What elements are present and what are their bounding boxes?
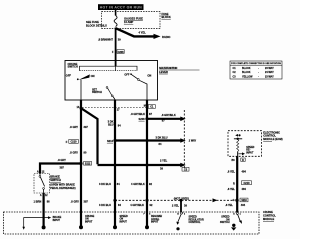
module internal arrow bbox=[22, 216, 51, 230]
svg-text:SWITCH: SWITCH bbox=[50, 178, 61, 182]
svg-text:.8 GRY: .8 GRY bbox=[58, 158, 67, 162]
wire A label at bottom bbox=[71, 200, 89, 204]
svg-text:3 DK BLU: 3 DK BLU bbox=[156, 136, 168, 140]
wire from fuse to switch box bbox=[115, 28, 117, 61]
connector pins above brake switch bbox=[37, 170, 45, 173]
ECM internal signal line bbox=[234, 134, 255, 156]
brake switch SW1 dashed box bbox=[34, 174, 50, 194]
wire D from C3 to module bbox=[180, 200, 182, 212]
label CRUISE SWITCH bbox=[68, 62, 78, 69]
dashed bus wire bbox=[115, 199, 234, 201]
wire A from switch bbox=[80, 100, 82, 212]
svg-text:B: B bbox=[177, 213, 179, 215]
fuse block label bbox=[162, 12, 171, 19]
svg-text:397: 397 bbox=[84, 200, 89, 204]
svg-text:39: 39 bbox=[118, 38, 121, 42]
cruise module label bbox=[263, 210, 276, 222]
svg-text:FOR COMPLETE CONNECTOR ID SEE: FOR COMPLETE CONNECTOR ID SEE NOTATION bbox=[231, 62, 281, 65]
wire B lower label bbox=[99, 182, 152, 186]
svg-text:OFF: OFF bbox=[124, 73, 129, 76]
header HOT IN ACCY OR RUN bbox=[98, 4, 144, 10]
svg-text:(OPEN WITH BRAKE: (OPEN WITH BRAKE bbox=[50, 184, 75, 187]
svg-text:BLACK: BLACK bbox=[242, 71, 251, 74]
svg-text:84: 84 bbox=[117, 182, 120, 186]
svg-text:87: 87 bbox=[149, 112, 152, 116]
svg-text:A: A bbox=[40, 194, 42, 197]
svg-text:SWITCH: SWITCH bbox=[68, 65, 78, 69]
svg-text:90: 90 bbox=[84, 150, 87, 154]
svg-text:3 DK BLU: 3 DK BLU bbox=[99, 203, 111, 207]
svg-text:84: 84 bbox=[118, 203, 121, 207]
svg-text:13: 13 bbox=[77, 106, 80, 109]
svg-text:INPUT: INPUT bbox=[120, 220, 128, 223]
connector pins below brake switch bbox=[40, 194, 48, 197]
wire brake branch bbox=[40, 164, 81, 174]
svg-text:MODULE: MODULE bbox=[263, 217, 275, 221]
svg-text:M: M bbox=[144, 105, 146, 108]
node on wire C bbox=[145, 199, 148, 202]
svg-text:YELLOW: YELLOW bbox=[242, 76, 253, 79]
svg-text:BRAKE: BRAKE bbox=[50, 174, 60, 178]
switch arm OFF/ON wedge bbox=[66, 73, 95, 100]
svg-text:3 DK BLU: 3 DK BLU bbox=[99, 182, 111, 186]
svg-text:S212: S212 bbox=[85, 163, 91, 165]
svg-text:484: 484 bbox=[241, 203, 246, 207]
svg-text:.8 BRN/WHT: .8 BRN/WHT bbox=[98, 38, 114, 42]
wire H1 to connector bbox=[147, 118, 181, 120]
svg-text:C208: C208 bbox=[118, 51, 125, 54]
svg-text:INPUT: INPUT bbox=[151, 221, 159, 224]
svg-text:.8 GRY: .8 GRY bbox=[71, 200, 80, 204]
svg-text:4 YEL: 4 YEL bbox=[139, 31, 147, 35]
splice S214 on wire B bbox=[107, 139, 117, 143]
svg-text:-: - bbox=[258, 71, 259, 74]
svg-text:LEVER: LEVER bbox=[159, 70, 168, 74]
connector C208 bbox=[112, 50, 124, 54]
brake branch labels bbox=[58, 158, 67, 169]
svg-text:G: G bbox=[233, 199, 235, 202]
svg-text:BLACK: BLACK bbox=[242, 67, 251, 70]
wire jog from A bbox=[81, 108, 98, 164]
connector C210 on wire A bbox=[66, 139, 79, 143]
svg-text:.8 YEL: .8 YEL bbox=[227, 187, 235, 191]
svg-text:.8 YEL: .8 YEL bbox=[225, 203, 233, 207]
wire feed into slide switch bbox=[115, 61, 117, 67]
module entry pins bbox=[143, 213, 240, 215]
svg-text:INPUT: INPUT bbox=[85, 220, 93, 223]
multi-function lever switch box U1 bbox=[65, 61, 158, 101]
note SEE FUSE BLOCK DETAILS bbox=[86, 20, 107, 28]
fuse F1 GAUGES FUSE 10 AMP bbox=[114, 16, 143, 27]
svg-text:1: 1 bbox=[240, 213, 241, 215]
svg-text:F: F bbox=[66, 140, 68, 144]
svg-text:BLOCK DETAILS: BLOCK DETAILS bbox=[86, 24, 107, 28]
wire E label 3 YEL bbox=[225, 203, 246, 207]
splice S212 bbox=[79, 162, 91, 166]
svg-text:6: 6 bbox=[149, 213, 150, 215]
wire tap to radio (diagonal + arrow) bbox=[116, 28, 171, 39]
terminal speed input bbox=[113, 212, 128, 229]
svg-text:S219: S219 bbox=[241, 200, 247, 202]
svg-text:84: 84 bbox=[118, 124, 121, 128]
svg-text:F: F bbox=[143, 213, 145, 215]
brake switch contacts bbox=[39, 174, 45, 194]
svg-text:484: 484 bbox=[242, 169, 247, 173]
svg-text:10 AMP: 10 AMP bbox=[124, 20, 134, 24]
connector C210 on wire E bbox=[233, 181, 252, 186]
connector C3 dashed boundary bbox=[183, 110, 185, 168]
svg-text:F: F bbox=[112, 50, 114, 54]
label MULTI-FUNCTION LEVER bbox=[159, 66, 199, 74]
svg-text:.8 GRY: .8 GRY bbox=[70, 125, 79, 129]
ECM dashed box bbox=[228, 131, 262, 157]
svg-text:4 GRY/BLK: 4 GRY/BLK bbox=[130, 203, 144, 207]
node on wire B bbox=[113, 199, 116, 202]
terminal resume/accel input bbox=[145, 212, 162, 229]
svg-text:R: R bbox=[233, 182, 235, 185]
wire A labels .8 GRY 397 lower bbox=[70, 150, 87, 154]
splice S208 on wire C bbox=[139, 117, 149, 121]
svg-text:E: E bbox=[233, 213, 235, 215]
svg-text:INPUT: INPUT bbox=[246, 152, 254, 155]
wire H3 from jog bbox=[98, 164, 182, 166]
wire brake to module bbox=[42, 193, 44, 212]
terminal on/off input bbox=[79, 212, 95, 229]
svg-text:HOT IN ACCY OR RUN: HOT IN ACCY OR RUN bbox=[100, 6, 143, 10]
svg-text:C210: C210 bbox=[244, 182, 251, 185]
svg-text:-: - bbox=[258, 67, 259, 70]
wire C from switch bbox=[146, 100, 148, 212]
svg-text:24 WAY: 24 WAY bbox=[265, 71, 274, 74]
svg-text:ON: ON bbox=[147, 74, 151, 78]
ECM label bbox=[263, 130, 283, 141]
label .8 BRN 86 bbox=[34, 199, 51, 203]
wire B labels 3 DK BLU 84 bbox=[108, 119, 122, 127]
svg-text:.8 GRY/BLK: .8 GRY/BLK bbox=[131, 112, 146, 116]
svg-text:CONTROL: CONTROL bbox=[189, 221, 202, 224]
svg-text:397: 397 bbox=[60, 166, 65, 170]
svg-text:C210: C210 bbox=[71, 141, 78, 144]
wire D label 2 YEL 39 bbox=[172, 203, 188, 207]
ECM connector pin bbox=[232, 158, 246, 162]
svg-text:BLU: BLU bbox=[108, 123, 113, 127]
svg-text:3: 3 bbox=[184, 213, 185, 215]
note NOT USED bbox=[174, 197, 189, 201]
svg-text:2 WAY: 2 WAY bbox=[189, 140, 197, 143]
terminal brake input bbox=[42, 212, 62, 229]
svg-text:SEE FUSE: SEE FUSE bbox=[86, 20, 99, 24]
svg-text:MULTI-FUNCTION: MULTI-FUNCTION bbox=[159, 66, 177, 70]
brake switch label bbox=[50, 174, 76, 190]
svg-text:2 YEL: 2 YEL bbox=[172, 203, 180, 207]
svg-text:FUSE: FUSE bbox=[162, 12, 169, 16]
node junction on wire A bbox=[80, 107, 83, 110]
svg-text:397: 397 bbox=[84, 125, 89, 129]
svg-text:484: 484 bbox=[242, 187, 247, 191]
set switch bbox=[92, 87, 115, 101]
cruise module dashed box bbox=[4, 212, 260, 234]
svg-text:86: 86 bbox=[47, 199, 50, 203]
wire C lower label bbox=[130, 203, 153, 207]
svg-text:92: 92 bbox=[150, 203, 153, 207]
svg-text:23 WAY: 23 WAY bbox=[265, 76, 274, 79]
slide switch body bbox=[80, 66, 138, 71]
svg-text:PEDAL DEPRESSED): PEDAL DEPRESSED) bbox=[50, 187, 76, 190]
fuse block dashed box bbox=[102, 12, 161, 29]
switch wire D input bbox=[176, 212, 204, 231]
wire E label 8 YEL 484 bbox=[227, 169, 246, 173]
svg-text:1 BRN: 1 BRN bbox=[34, 199, 42, 203]
svg-text:D: D bbox=[242, 159, 244, 162]
svg-text:C2: C2 bbox=[233, 71, 237, 74]
svg-text:2 YEL: 2 YEL bbox=[160, 159, 168, 163]
svg-text:INPUT: INPUT bbox=[53, 219, 61, 222]
svg-text:12: 12 bbox=[42, 170, 45, 173]
wire label .8 BRN/WHT 39 bbox=[98, 38, 121, 42]
svg-text:S208: S208 bbox=[139, 117, 146, 121]
svg-text:84: 84 bbox=[159, 142, 162, 146]
svg-text:GAUGES FUSE: GAUGES FUSE bbox=[124, 16, 143, 20]
svg-text:-: - bbox=[258, 76, 259, 79]
svg-text:39: 39 bbox=[184, 203, 187, 207]
wire E label 8 YEL 484 lower bbox=[227, 187, 246, 191]
wire fuse feed stub bbox=[115, 10, 117, 16]
svg-text:OFF: OFF bbox=[66, 73, 72, 77]
connector table bbox=[230, 61, 282, 79]
svg-text:B6: B6 bbox=[232, 159, 236, 162]
svg-text:MODULE (ECM): MODULE (ECM) bbox=[263, 137, 283, 141]
svg-text:17: 17 bbox=[117, 108, 120, 111]
wire H2 to connector bbox=[115, 139, 181, 141]
resume/accel switch bbox=[124, 73, 151, 100]
svg-text:SWITCH: SWITCH bbox=[220, 221, 230, 224]
svg-text:39: 39 bbox=[160, 167, 163, 171]
svg-text:92: 92 bbox=[149, 182, 152, 186]
svg-text:.8 GRY: .8 GRY bbox=[70, 150, 79, 154]
svg-text:C1: C1 bbox=[233, 67, 237, 70]
wire C labels .8 GRY/BLK 87 bbox=[131, 112, 153, 116]
svg-text:ON: ON bbox=[91, 74, 95, 78]
connector C1 row bbox=[77, 105, 156, 112]
svg-text:C3: C3 bbox=[233, 76, 237, 79]
svg-text:4 GRY/BLK: 4 GRY/BLK bbox=[131, 182, 145, 186]
splice S219 bbox=[233, 198, 248, 202]
svg-text:12: 12 bbox=[45, 195, 48, 197]
wire A labels .8 GRY 397 bbox=[70, 125, 89, 129]
switch wire E input bbox=[220, 212, 242, 230]
svg-text:S214: S214 bbox=[107, 139, 114, 143]
svg-text:SWITCH: SWITCH bbox=[92, 91, 102, 94]
svg-text:.8 YEL: .8 YEL bbox=[227, 169, 235, 173]
svg-text:23 WAY: 23 WAY bbox=[265, 67, 274, 70]
svg-text:.8 GRY/BLK: .8 GRY/BLK bbox=[161, 113, 176, 117]
svg-text:A: A bbox=[37, 170, 39, 173]
wire B from switch bbox=[114, 100, 116, 212]
svg-text:CONTROL: CONTROL bbox=[263, 213, 276, 217]
svg-text:BLOCK: BLOCK bbox=[162, 15, 171, 19]
wire E ECM to module bbox=[236, 156, 238, 212]
svg-text:RADIO: RADIO bbox=[162, 35, 170, 39]
